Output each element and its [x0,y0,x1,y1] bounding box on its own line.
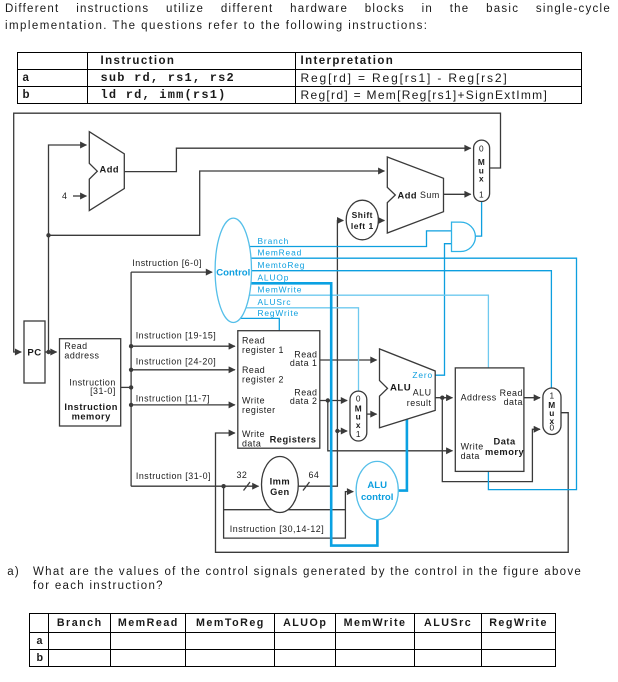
wire: branch adder Sum to mux input 1 [444,193,471,195]
svg-text:1: 1 [479,189,484,199]
adder Add (PC+4) [89,132,124,211]
svg-text:Address: Address [461,393,497,403]
svg-text:data: data [504,397,523,407]
intro paragraph [5,1,611,18]
wire: PC+4 from Add to mux input 0 [124,148,470,171]
svg-text:ALUSrc: ALUSrc [258,297,292,307]
svg-text:MemRead: MemRead [258,248,303,258]
wire: label box top segment [224,509,346,511]
svg-text:64: 64 [309,470,320,480]
wire: mux output feedback over top into PC [14,113,501,352]
svg-text:Branch: Branch [258,236,290,246]
wire: Instruction [24-20] to Read register 2 [131,369,235,371]
wire: MemtoReg control to write-back mux [233,271,551,388]
svg-text:Data: Data [494,437,516,447]
svg-text:ALU: ALU [413,388,432,398]
wire: read data 1 to ALU [320,359,377,361]
svg-text:Instruction [30,14-12]: Instruction [30,14-12] [230,524,324,534]
svg-text:result: result [407,398,432,408]
wire: immediate to ALUSrc mux input 1 [337,430,347,432]
svg-text:register: register [242,405,276,415]
svg-text:Add: Add [100,165,120,175]
shift left 1 [346,200,378,240]
svg-text:32: 32 [237,470,248,480]
wire: ALUOp control to ALU control [233,283,377,545]
wire: PC to instruction memory read address [45,351,57,353]
svg-text:Instruction [19-15]: Instruction [19-15] [136,331,217,341]
wire: read data 2 to ALUSrc mux input 0 [320,400,347,402]
and gate [452,222,476,251]
wire: Instruction [6-0] to Control [131,271,212,273]
data memory [455,368,524,472]
svg-text:Read: Read [242,365,265,375]
svg-text:Control: Control [216,267,250,278]
svg-text:Shift: Shift [352,210,373,220]
junction: instruction memory output [129,385,133,389]
svg-text:Instruction [6-0]: Instruction [6-0] [132,258,202,268]
control unit oval [215,218,251,322]
svg-text:Instruction [11-7]: Instruction [11-7] [136,394,210,404]
svg-text:ALU: ALU [367,480,387,491]
svg-text:1: 1 [356,429,361,439]
svg-text:Sum: Sum [420,190,440,200]
wire: ALUSrc control to mux [233,308,359,391]
instruction memory [60,339,121,426]
svg-text:Write: Write [461,442,484,452]
svg-text:data: data [242,438,261,448]
wire: Branch control to AND gate [233,231,452,247]
wire: ALU result around memory to mux input 0 [442,398,540,482]
wire: constant 4 into Add [73,195,86,197]
svg-text:Registers: Registers [270,434,317,444]
imm gen [262,457,299,513]
registers [238,331,320,449]
wire: ALU control operation to ALU [398,419,407,490]
adder Add Sum (branch target) [387,157,443,233]
svg-text:register 2: register 2 [242,374,284,384]
wire: read data 2 to data memory write data [328,401,453,451]
wire: Imm Gen output up to Shift left 1 [298,221,343,487]
svg-text:MemWrite: MemWrite [258,285,303,295]
svg-text:RegWrite: RegWrite [258,308,300,318]
junction: instruction bus to write register [129,403,133,407]
svg-text:Write: Write [242,395,265,405]
junction: instruction bus to read register 1 [129,344,133,348]
svg-text:address: address [64,351,99,361]
svg-text:MemtoReg: MemtoReg [258,260,306,270]
svg-text:data 2: data 2 [290,396,318,406]
svg-text:Add: Add [398,190,418,200]
wire: shift left 1 output to branch adder [378,220,384,222]
svg-text:ALU: ALU [390,382,411,393]
wire: ALU result to data memory address [435,397,452,399]
wire: Instruction [19-15] to Read register 1 [131,345,235,347]
wire: RegWrite control to registers [233,318,279,331]
svg-text:Gen: Gen [270,487,290,497]
wire: Instruction [31-0] to Imm Gen [131,485,258,487]
junction: immediate to mux and shift [335,429,339,433]
slash tick 32 [244,482,251,491]
question a) [7,565,20,579]
wire: Instruction [11-7] to Write register [131,404,235,406]
wire: memory read data to mux input 1 [524,397,540,399]
svg-text:Read: Read [242,335,265,345]
junction: pc output [46,350,50,354]
wire: Instruction [30,14-12] to ALU control [224,486,354,538]
wire: MemWrite control to data memory [233,295,488,368]
instruction table [17,52,582,105]
junction: pc wire to branch adder [46,233,50,237]
wire: PC tap to branch adder [49,171,385,235]
svg-text:Zero: Zero [412,370,433,380]
svg-text:Read: Read [64,341,87,351]
wire: PC up to Add [49,145,87,352]
wire: AND gate output to mux select [475,202,481,237]
svg-text:control: control [361,492,394,503]
wire: ALUSrc mux output to ALU [367,413,377,415]
slash tick 64 [303,482,310,491]
wire: instruction bus vertical [130,272,132,486]
svg-text:memory: memory [485,447,525,457]
svg-text:left 1: left 1 [351,221,374,231]
mux alusrc [350,391,367,441]
svg-text:0: 0 [549,423,554,433]
junction: read data 2 branch [326,398,330,402]
svg-text:data 1: data 1 [290,358,318,368]
svg-text:Write: Write [242,429,265,439]
svg-text:register 1: register 1 [242,345,284,355]
wire: instruction memory output to bus [121,386,131,388]
junction: instruction bus to read register 2 [129,368,133,372]
junction: instruction to imm gen and alu control [221,484,225,488]
mux pcsrc [474,140,490,201]
pc register [24,321,45,383]
junction: alu result branch [440,396,444,400]
svg-text:Instruction [31-0]: Instruction [31-0] [136,471,211,481]
svg-text:PC: PC [27,348,41,359]
mux memtoreg [543,388,561,435]
svg-text:0: 0 [479,143,484,153]
wire: MemRead control to data memory [233,258,577,489]
svg-text:data: data [461,451,480,461]
svg-text:memory: memory [72,411,112,421]
wire: Zero flag to AND gate [435,244,451,376]
svg-text:0: 0 [356,394,361,404]
svg-text:Instruction [24-20]: Instruction [24-20] [136,357,217,367]
answer table [29,613,557,667]
svg-text:Imm: Imm [270,476,291,486]
svg-text:x: x [479,174,484,184]
svg-text:ALUOp: ALUOp [258,273,290,283]
wire: write-back to registers write data [216,413,569,553]
svg-text:[31-0]: [31-0] [90,386,116,396]
svg-text:4: 4 [62,191,67,201]
alu [380,349,436,428]
alu control oval [356,461,398,519]
